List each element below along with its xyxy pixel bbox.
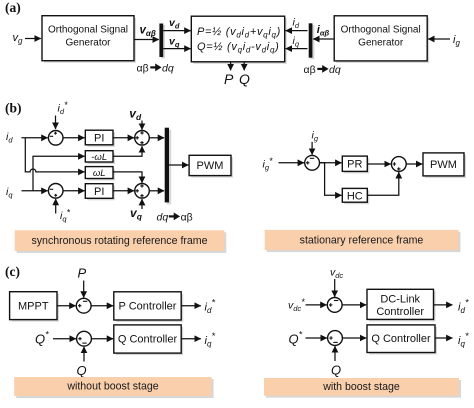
svg-text:iq*: iq* xyxy=(60,208,71,224)
svg-text:dq: dq xyxy=(157,212,169,224)
svg-text:iαβ: iαβ xyxy=(317,24,330,38)
svg-text:vq: vq xyxy=(169,36,180,50)
svg-text:iq: iq xyxy=(6,186,13,200)
svg-text:dq: dq xyxy=(329,64,341,76)
svg-text:P: P xyxy=(78,266,87,281)
svg-text:Q Controller: Q Controller xyxy=(371,333,431,345)
svg-text:Generator: Generator xyxy=(65,38,111,49)
svg-text:iq: iq xyxy=(293,35,300,49)
svg-text:vαβ: vαβ xyxy=(140,25,156,39)
svg-text:PWM: PWM xyxy=(430,159,457,171)
svg-text:αβ: αβ xyxy=(137,63,149,75)
svg-text:ωL: ωL xyxy=(93,168,106,179)
svg-text:id: id xyxy=(293,17,300,31)
svg-text:P: P xyxy=(224,71,234,87)
svg-text:iq*: iq* xyxy=(458,331,469,349)
svg-text:Q*: Q* xyxy=(289,330,303,347)
svg-text:vdc*: vdc* xyxy=(288,297,305,313)
svg-text:vd: vd xyxy=(129,107,142,123)
svg-text:PWM: PWM xyxy=(197,160,224,172)
svg-text:ig*: ig* xyxy=(263,156,274,172)
svg-text:ig: ig xyxy=(312,130,319,144)
svg-text:MPPT: MPPT xyxy=(18,300,49,312)
svg-text:iq*: iq* xyxy=(205,331,216,349)
svg-text:HC: HC xyxy=(347,190,363,202)
svg-text:id*: id* xyxy=(58,100,69,116)
svg-text:Controller: Controller xyxy=(376,306,424,318)
svg-text:dq: dq xyxy=(162,63,174,75)
svg-text:stationary reference frame: stationary reference frame xyxy=(300,235,424,247)
svg-text:Q Controller: Q Controller xyxy=(118,334,178,346)
svg-text:vdc: vdc xyxy=(330,267,343,281)
svg-text:(a): (a) xyxy=(5,0,21,15)
svg-text:vq: vq xyxy=(130,206,143,222)
svg-text:PI: PI xyxy=(94,186,104,198)
svg-text:(b): (b) xyxy=(5,101,22,116)
svg-text:Q: Q xyxy=(331,363,341,378)
svg-text:vd: vd xyxy=(169,17,180,31)
svg-text:Q*: Q* xyxy=(35,330,49,347)
svg-text:vg: vg xyxy=(13,32,24,46)
svg-text:PI: PI xyxy=(94,132,104,144)
svg-text:synchronous rotating reference: synchronous rotating reference frame xyxy=(31,235,207,247)
svg-text:αβ: αβ xyxy=(181,212,193,224)
svg-text:Q: Q xyxy=(77,363,87,378)
svg-text:DC-Link: DC-Link xyxy=(380,293,420,305)
svg-text:Generator: Generator xyxy=(358,38,404,49)
svg-text:PR: PR xyxy=(347,159,362,171)
svg-text:Q: Q xyxy=(239,71,250,87)
svg-text:id: id xyxy=(6,131,13,145)
svg-text:id*: id* xyxy=(458,298,469,316)
svg-text:P Controller: P Controller xyxy=(119,301,177,313)
svg-text:Orthogonal Signal: Orthogonal Signal xyxy=(341,25,421,36)
svg-text:id*: id* xyxy=(205,298,216,316)
svg-text:(c): (c) xyxy=(5,264,20,279)
svg-text:-ωL: -ωL xyxy=(91,152,107,163)
svg-text:αβ: αβ xyxy=(304,64,316,76)
svg-text:ig: ig xyxy=(453,34,460,48)
svg-text:with boost stage: with boost stage xyxy=(322,381,400,393)
svg-text:Orthogonal Signal: Orthogonal Signal xyxy=(48,25,128,36)
svg-text:without boost stage: without boost stage xyxy=(66,381,158,393)
